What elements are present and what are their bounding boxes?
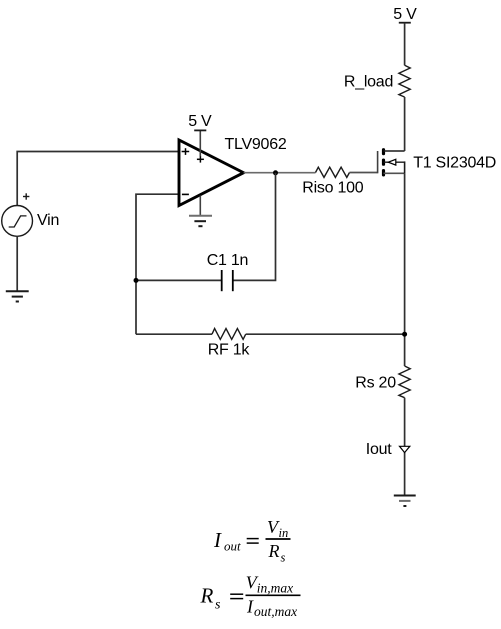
- capacitor C1: [222, 270, 233, 291]
- svg-text:s: s: [281, 551, 286, 565]
- node dot at source/RF junction: [402, 332, 407, 337]
- wire Riso to T1 gate: [350, 172, 378, 174]
- svg-text:I: I: [213, 528, 222, 552]
- label Iout: [366, 441, 392, 458]
- svg-text:s: s: [215, 598, 221, 613]
- op-amp + input label: [182, 148, 190, 155]
- equation Iout = Vin/Rs: [213, 517, 291, 565]
- label C1 1n: [207, 252, 248, 269]
- label Rs 20: [355, 374, 396, 391]
- op-amp 5V supply stub and T-bar: [194, 130, 206, 156]
- label Vin: [37, 212, 59, 229]
- node dot at op-amp output / C1 branch: [273, 170, 278, 175]
- label T1 SI2304D: [413, 155, 496, 172]
- svg-text:5 V: 5 V: [393, 6, 417, 23]
- svg-text:out,max: out,max: [254, 604, 297, 619]
- svg-text:RF 1k: RF 1k: [208, 342, 251, 359]
- svg-text:T1 SI2304D: T1 SI2304D: [413, 155, 496, 172]
- label R_load: [344, 74, 393, 91]
- transistor T1 SI2304D (N-MOSFET): [378, 150, 405, 175]
- node dot at inverting/feedback junction: [134, 278, 139, 283]
- op-amp U1 TLV9062 triangle: [179, 140, 244, 206]
- svg-text:5 V: 5 V: [188, 113, 212, 130]
- voltage source Vin: [2, 206, 33, 237]
- svg-text:in,max: in,max: [257, 580, 293, 595]
- label RF 1k: [208, 342, 251, 359]
- 5V T-bar (top right): [399, 22, 411, 24]
- op-amp - input label: [182, 193, 189, 195]
- label 5 V (op-amp supply): [188, 113, 212, 130]
- svg-text:Iout: Iout: [366, 441, 392, 458]
- ground (bottom right): [394, 496, 416, 507]
- svg-text:TLV9062: TLV9062: [225, 136, 287, 153]
- svg-text:C1 1n: C1 1n: [207, 252, 248, 269]
- Iout current arrow: [400, 446, 410, 452]
- wire op-amp inverting input and feedback left run: [136, 194, 179, 334]
- wire op-amp output to Riso: [244, 172, 316, 174]
- svg-text:R: R: [200, 584, 214, 608]
- source connection: [384, 172, 405, 174]
- wire Vin bottom to ground: [16, 236, 18, 291]
- svg-text:Rs 20: Rs 20: [355, 374, 396, 391]
- svg-text:Riso 100: Riso 100: [302, 180, 364, 197]
- wire feedback bottom run to RF: [136, 333, 212, 335]
- resistor Rs 20: [399, 366, 410, 398]
- wire output node down to C1 right side: [233, 173, 276, 281]
- resistor R_load: [399, 65, 410, 97]
- svg-text:I: I: [246, 597, 254, 617]
- svg-text:R: R: [268, 541, 280, 561]
- wire Vin top to op-amp + input: [17, 152, 179, 206]
- svg-text:in: in: [279, 526, 289, 540]
- label Riso 100: [302, 180, 364, 197]
- svg-text:R_load: R_load: [344, 74, 393, 91]
- body-source join: [404, 161, 406, 173]
- op-amp positive supply + mark: [197, 156, 204, 163]
- plus polarity mark of Vin: [23, 193, 29, 199]
- wire R_load to T1 drain: [404, 97, 406, 151]
- label 5 V (top right): [393, 6, 417, 23]
- capacitor C1 wire left: [136, 279, 221, 281]
- svg-text:out: out: [224, 539, 241, 554]
- gate bar: [377, 151, 379, 173]
- equation Rs = Vin,max/Iout,max: [200, 573, 301, 619]
- drain connection: [384, 150, 405, 152]
- body connection with arrow: [384, 161, 405, 163]
- resistor RF 1k: [212, 329, 246, 340]
- resistor Riso 100: [316, 167, 350, 177]
- ground (below Vin): [6, 291, 29, 301]
- channel segments: [382, 150, 385, 175]
- op-amp ground stub: [199, 196, 201, 216]
- ground (below op-amp): [189, 216, 212, 226]
- label TLV9062: [225, 136, 287, 153]
- wire T1 source down to sense node: [404, 173, 406, 366]
- wire Rs to ground: [404, 398, 406, 496]
- wire 5V to R_load: [404, 23, 406, 66]
- wire RF to right rail: [246, 333, 405, 335]
- svg-text:Vin: Vin: [37, 212, 59, 229]
